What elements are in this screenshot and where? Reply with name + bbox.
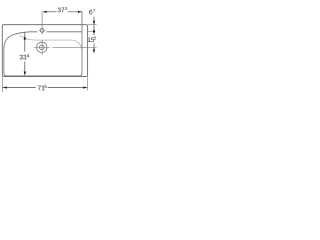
- top dimension right arrow: [78, 11, 82, 13]
- bottom left extension line: [1, 77, 3, 92]
- label 6-7: [89, 9, 95, 14]
- right dim arrow up: [93, 48, 95, 52]
- centerline through tap hole and drain: [34, 12, 50, 55]
- drain outer circle: [37, 42, 47, 52]
- washbasin inner rim outline with right-edge extension line: [4, 12, 82, 76]
- bottom right extension line: [87, 77, 89, 90]
- drain inner circle: [39, 45, 44, 50]
- left dim arrow down: [24, 72, 26, 76]
- inner bowl contour: [20, 35, 82, 50]
- right dim diamond: [93, 29, 96, 34]
- bottom dim right arrow: [83, 87, 87, 89]
- label 71-5: [38, 85, 47, 90]
- left dim arrow up: [24, 36, 26, 40]
- left dimension vertical line segments: [24, 32, 26, 72]
- right dimension vertical line segments: [93, 17, 95, 54]
- washbasin outer rim (top view): [2, 25, 87, 77]
- label 33-4: [20, 54, 30, 59]
- tap hole: [40, 29, 44, 33]
- rear edge extension line right: [88, 24, 97, 26]
- bottom dimension line: [3, 87, 88, 89]
- right dim arrow down: [93, 21, 95, 25]
- label 37-3: [58, 7, 68, 12]
- bottom dim left arrow: [3, 87, 7, 89]
- top dimension left arrow: [43, 11, 47, 13]
- top dimension line: [43, 11, 83, 13]
- label 15-2: [88, 37, 96, 42]
- drain center leader line: [53, 46, 97, 48]
- inner rim extension line right: [88, 31, 93, 33]
